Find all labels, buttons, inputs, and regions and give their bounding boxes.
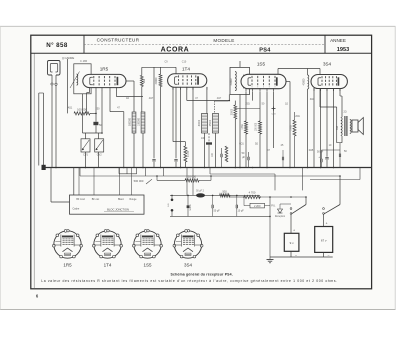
svg-text:C·186: C·186 [80,59,88,63]
svg-text:1 HΩ: 1 HΩ [242,124,244,130]
svg-text:3S4: 3S4 [184,262,193,267]
svg-text:3S4: 3S4 [323,62,332,67]
svg-text:50 μF 2: 50 μF 2 [196,191,205,193]
svg-text:100000: 100000 [137,117,140,126]
svg-text:500: 500 [222,190,227,194]
svg-text:10 000: 10 000 [188,175,197,179]
svg-text:25000: 25000 [210,119,212,126]
svg-text:4 700: 4 700 [249,191,256,195]
svg-text:20000: 20000 [231,108,233,115]
svg-text:1T4: 1T4 [104,262,112,267]
svg-text:3Ω4: 3Ω4 [310,98,315,101]
svg-text:1Ω: 1Ω [126,97,129,100]
svg-text:CONSTRUCTEUR: CONSTRUCTEUR [97,38,140,43]
svg-text:5Ω: 5Ω [255,143,258,146]
svg-text:Réception: Réception [275,215,286,218]
svg-text:–: – [328,253,330,257]
svg-text:BLOC JONCTION: BLOC JONCTION [107,208,129,212]
svg-text:1S5: 1S5 [143,262,152,267]
svg-text:40000: 40000 [199,119,201,126]
svg-text:350: 350 [336,125,339,130]
svg-text:N° 858: N° 858 [46,42,68,49]
svg-text:C.136: C.136 [188,150,190,157]
svg-text:50 μF: 50 μF [214,210,221,213]
svg-text:BF mod: BF mod [76,198,85,201]
svg-text:4Ω7: 4Ω7 [149,97,154,100]
svg-text:50000: 50000 [190,204,192,211]
svg-text:+: + [326,222,328,226]
svg-text:10 μF: 10 μF [238,210,245,213]
svg-text:1953: 1953 [337,47,349,53]
svg-text:Rouge: Rouge [129,198,137,201]
svg-text:MODELE: MODELE [213,38,234,43]
svg-text:40000: 40000 [155,77,158,84]
svg-text:BF osc: BF osc [92,198,100,201]
svg-text:HS: HS [168,203,170,207]
svg-text:40000: 40000 [302,78,305,85]
svg-text:C10: C10 [182,61,187,64]
svg-text:1T4: 1T4 [182,67,190,72]
svg-text:ACORA: ACORA [161,47,190,54]
svg-text:50 μF: 50 μF [317,151,324,154]
svg-text:100 000: 100 000 [256,122,258,131]
svg-text:25Ω: 25Ω [245,103,250,106]
svg-text:67 v: 67 v [321,239,327,243]
svg-text:CADRE: CADRE [65,56,75,60]
svg-text:2Ω2: 2Ω2 [144,78,146,83]
svg-text:PS4: PS4 [259,47,271,53]
svg-text:500000: 500000 [128,117,131,126]
svg-text:Schéma général du récepteur PS: Schéma général du récepteur PS4. [171,273,233,277]
svg-text:20Ω: 20Ω [295,115,300,118]
svg-text:P.U.: P.U. [271,205,276,208]
svg-text:4Ω1: 4Ω1 [68,107,73,110]
svg-text:Cadre: Cadre [73,208,80,211]
svg-text:9 v: 9 v [290,241,295,245]
svg-text:2Ω: 2Ω [343,111,346,114]
svg-text:+: + [293,229,295,233]
svg-text:–: – [295,253,297,257]
svg-text:Blanc: Blanc [118,198,125,201]
svg-text:0Ω5: 0Ω5 [309,149,314,152]
svg-text:500 000: 500 000 [134,179,144,183]
svg-text:5 HΩ: 5 HΩ [290,125,292,131]
svg-text:100: 100 [201,137,206,140]
svg-text:ANNEE: ANNEE [330,38,346,43]
svg-text:1S5: 1S5 [257,62,266,67]
svg-text:2 200: 2 200 [254,204,261,208]
svg-text:4Ω7: 4Ω7 [217,97,222,100]
svg-text:250: 250 [96,108,101,111]
svg-text:40000: 40000 [230,78,233,85]
svg-text:0Ω1: 0Ω1 [239,143,244,146]
svg-text:1R5: 1R5 [63,262,72,267]
svg-text:CV2: CV2 [97,154,102,157]
svg-text:1Ω: 1Ω [285,103,288,106]
svg-text:La valeur des résistances R sh: La valeur des résistances R shuntant les… [41,279,338,283]
svg-text:1R5: 1R5 [100,67,109,72]
